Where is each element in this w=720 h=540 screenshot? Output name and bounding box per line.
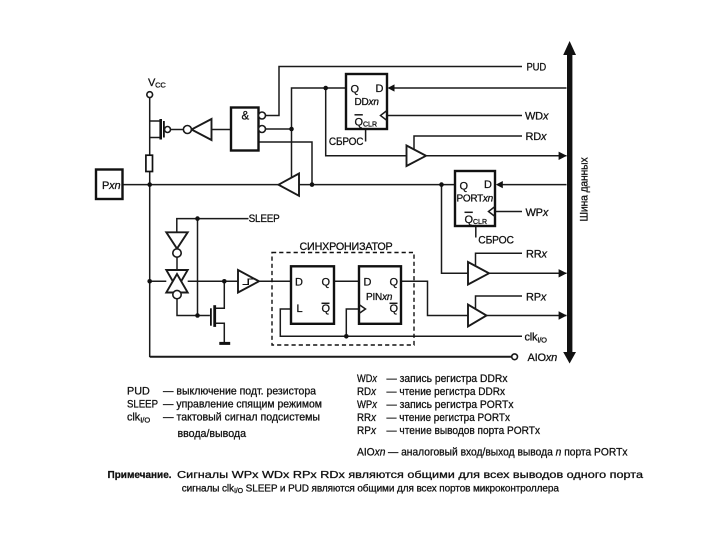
svg-text:RPx: RPx — [526, 292, 547, 304]
svg-text:Q: Q — [351, 84, 360, 96]
svg-text:D: D — [376, 83, 384, 95]
svg-text:SLEEP: SLEEP — [127, 399, 158, 411]
svg-text:— чтение выводов порта PORTx: — чтение выводов порта PORTx — [387, 425, 541, 437]
svg-text:Шина данных: Шина данных — [579, 157, 591, 222]
svg-text:— управление спящим режимом: — управление спящим режимом — [163, 399, 322, 411]
svg-text:L: L — [297, 303, 303, 315]
svg-text:— запись регистра DDRx: — запись регистра DDRx — [387, 373, 509, 385]
svg-text:СБРОС: СБРОС — [478, 235, 514, 247]
svg-text:RRx: RRx — [357, 412, 377, 424]
svg-text:clkI/O: clkI/O — [127, 412, 150, 425]
svg-text:ввода/вывода: ввода/вывода — [178, 428, 247, 440]
svg-text:CLR: CLR — [473, 219, 487, 226]
svg-text:PUD: PUD — [127, 386, 150, 398]
svg-text:D: D — [484, 179, 492, 191]
svg-text:RDx: RDx — [526, 131, 548, 143]
svg-text:PORTxn: PORTxn — [457, 194, 494, 205]
svg-text:Примечание.: Примечание. — [108, 470, 172, 481]
svg-text:WPx: WPx — [526, 207, 549, 219]
svg-text:— аналоговый вход/выход вывода: — аналоговый вход/выход вывода n порта P… — [388, 447, 628, 459]
svg-text:RPx: RPx — [357, 425, 377, 437]
svg-text:Q: Q — [390, 303, 399, 315]
svg-text:— тактовый сигнал подсистемы: — тактовый сигнал подсистемы — [163, 412, 320, 424]
svg-text:Pxn: Pxn — [102, 180, 120, 192]
svg-text:Q: Q — [460, 181, 469, 193]
svg-text:VCC: VCC — [148, 77, 166, 90]
svg-text:— выключение подт. резистора: — выключение подт. резистора — [163, 386, 316, 398]
svg-text:— чтение регистра DDRx: — чтение регистра DDRx — [387, 386, 506, 398]
svg-text:Q: Q — [322, 303, 331, 315]
svg-text:D: D — [364, 277, 372, 289]
svg-text:СБРОС: СБРОС — [329, 136, 364, 148]
svg-text:CLR: CLR — [363, 122, 377, 129]
svg-text:сигналы clkI/O SLEEP и PUD яв: сигналы clkI/O SLEEP и PUD являются общи… — [182, 483, 560, 496]
svg-text:PUD: PUD — [527, 62, 547, 74]
svg-text:clkI/O: clkI/O — [525, 332, 548, 345]
svg-text:— запись регистра PORTx: — запись регистра PORTx — [387, 399, 515, 411]
svg-text:Q: Q — [322, 277, 331, 289]
svg-text:Q: Q — [390, 277, 399, 289]
svg-text:D: D — [295, 277, 303, 289]
svg-text:DDxn: DDxn — [355, 97, 380, 108]
svg-text:AIOxn: AIOxn — [528, 352, 558, 364]
svg-text:SLEEP: SLEEP — [249, 213, 280, 225]
svg-text:— чтение регистра PORTx: — чтение регистра PORTx — [387, 412, 511, 424]
svg-text:WDx: WDx — [357, 373, 378, 385]
svg-text:WDx: WDx — [525, 111, 549, 123]
svg-text:RDx: RDx — [357, 386, 377, 398]
svg-text:СИНХРОНИЗАТОР: СИНХРОНИЗАТОР — [300, 241, 393, 253]
svg-text:AIOxn: AIOxn — [357, 447, 386, 459]
svg-text:PINxn: PINxn — [366, 292, 393, 303]
svg-text:&: & — [242, 111, 250, 123]
svg-text:RRx: RRx — [526, 249, 548, 261]
svg-text:WPx: WPx — [357, 399, 378, 411]
svg-text:Сигналы WPx WDx RPx RDx явл: Сигналы WPx WDx RPx RDx являются общими … — [177, 469, 644, 481]
